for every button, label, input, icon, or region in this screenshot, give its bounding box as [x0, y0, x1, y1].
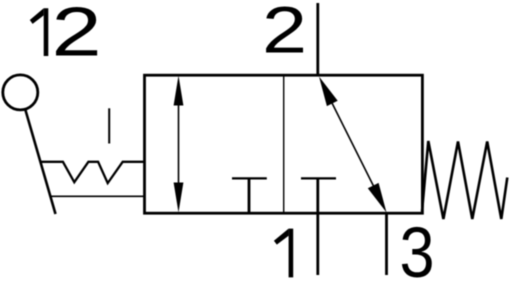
vertical tick above detent: [108, 108, 110, 143]
label 2 (top port): [262, 0, 307, 67]
label 3 (bottom port): [399, 213, 434, 284]
lever arm: [25, 109, 55, 214]
T bar left square: [232, 177, 267, 179]
valve body (two-position rectangle): [145, 75, 423, 213]
svg-text:2: 2: [51, 0, 101, 71]
port 3 line: [385, 213, 388, 275]
T bar of port 1: [301, 177, 336, 179]
return spring (right side): [422, 141, 507, 219]
svg-text:3: 3: [399, 213, 434, 284]
label 12 (pilot port): [30, 0, 102, 71]
lever knob circle: [3, 75, 38, 110]
diagonal double arrow (right square flow path 2-3): [319, 77, 387, 213]
position divider line: [283, 75, 285, 213]
vertical double arrow (left square flow path): [174, 76, 184, 213]
blocked-port T in left square: [248, 178, 251, 212]
port 1 line with blocked-port T (right square): [316, 178, 319, 275]
label 1 (bottom port): [274, 229, 293, 278]
svg-text:2: 2: [262, 0, 307, 67]
port 2 line: [316, 3, 319, 75]
detent top line with notch zigzag: [40, 162, 144, 183]
detent bottom line: [50, 195, 144, 197]
